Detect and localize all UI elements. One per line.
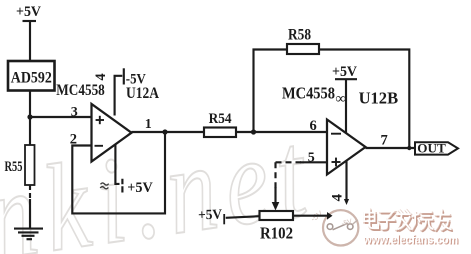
svg-text:4: 4 — [330, 194, 346, 202]
svg-text:MC4558: MC4558 — [282, 83, 335, 102]
svg-text:2: 2 — [70, 131, 77, 147]
svg-text:+5V: +5V — [127, 180, 153, 196]
svg-text:R55: R55 — [5, 159, 23, 175]
svg-text:+5V: +5V — [16, 4, 41, 20]
svg-text:7: 7 — [381, 133, 388, 149]
svg-text:MC4558: MC4558 — [56, 82, 105, 99]
svg-text:U12A: U12A — [126, 85, 159, 102]
svg-text:5: 5 — [308, 151, 315, 166]
svg-text:4: 4 — [93, 73, 109, 80]
svg-text:6: 6 — [310, 118, 317, 134]
svg-text:R54: R54 — [209, 111, 232, 127]
svg-text:AD592: AD592 — [11, 69, 52, 86]
svg-text:∞: ∞ — [336, 91, 346, 107]
svg-text:R58: R58 — [288, 27, 311, 44]
svg-text:R102: R102 — [260, 224, 293, 243]
svg-text:www.elecfans.com: www.elecfans.com — [363, 233, 458, 246]
svg-text:1: 1 — [145, 117, 152, 132]
svg-text:3: 3 — [71, 105, 78, 120]
svg-text:OUT: OUT — [417, 141, 446, 156]
svg-text:+5V: +5V — [332, 64, 357, 80]
svg-text:U12B: U12B — [359, 89, 399, 108]
svg-text:+5V: +5V — [198, 208, 223, 224]
